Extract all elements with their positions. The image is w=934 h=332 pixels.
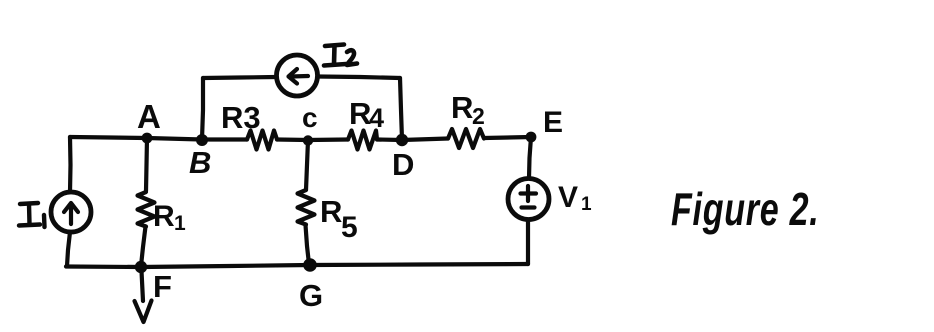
svg-text:F: F: [153, 269, 172, 304]
wire: branch A down to R1: [146, 138, 147, 191]
svg-text:2: 2: [472, 103, 485, 129]
wire: I1 bottom to bottom rail: [67, 232, 70, 266]
wire: vertical up from B to top loop: [202, 78, 203, 140]
node C: [303, 135, 313, 145]
ground at F: [135, 271, 152, 322]
resistor R2: [448, 129, 484, 148]
resistor R5: [298, 190, 315, 225]
wire: branch C down to R5: [306, 140, 308, 190]
svg-text:1: 1: [581, 194, 592, 215]
svg-text:R3: R3: [221, 100, 261, 135]
wire: main top horizontal A-B segment from left corner: [70, 137, 247, 140]
resistor R4: [348, 131, 377, 150]
svg-text:E: E: [543, 106, 563, 139]
label source I1: [19, 203, 45, 227]
wire: top loop left segment to I2: [203, 77, 276, 78]
node F: [135, 261, 147, 273]
svg-text:G: G: [299, 278, 323, 313]
voltage source V1: [508, 179, 549, 220]
svg-text:c: c: [302, 102, 318, 133]
wire: top loop right segment from I2: [318, 77, 400, 79]
current source I2: [277, 55, 318, 96]
resistor R1: [138, 192, 155, 227]
wire: R1 bottom to node F: [141, 227, 146, 267]
wire: V1 bottom to bottom rail: [526, 220, 530, 264]
node D: [396, 134, 408, 146]
svg-text:4: 4: [369, 103, 384, 133]
wire: left branch down from corner to I1: [68, 137, 73, 192]
svg-text:5: 5: [341, 211, 358, 244]
svg-text:1: 1: [174, 212, 186, 235]
svg-text:Figure 2.: Figure 2.: [671, 183, 819, 235]
svg-text:A: A: [137, 98, 161, 135]
svg-text:R: R: [451, 90, 473, 125]
svg-text:V: V: [558, 181, 578, 214]
node A: [142, 133, 153, 144]
resistor R3: [247, 131, 277, 150]
wire: segment D to R2: [377, 139, 448, 141]
label source I2: [324, 45, 357, 66]
wire: E down to V1: [529, 137, 531, 178]
wire: bottom rail F-G-right: [66, 264, 528, 267]
node E: [526, 132, 537, 143]
svg-text:R: R: [153, 200, 175, 233]
node B: [196, 134, 208, 146]
current source I1: [51, 192, 91, 232]
svg-text:B: B: [189, 145, 211, 180]
wire: R5 bottom to node G: [306, 225, 310, 264]
wire: segment R2 to E: [484, 137, 531, 138]
svg-text:R: R: [320, 194, 342, 229]
svg-text:D: D: [392, 147, 414, 182]
wire: segment C side: [277, 137, 348, 142]
node G: [303, 258, 317, 272]
wire: vertical down from top loop to D: [400, 78, 402, 140]
